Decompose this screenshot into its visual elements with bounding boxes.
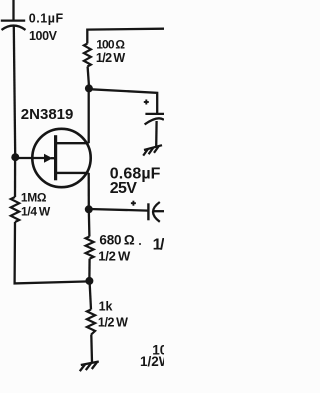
svg-text:1/2 W: 1/2 W xyxy=(98,249,131,264)
wire R4 to ground xyxy=(90,335,93,363)
wire R2 down and bottom rail xyxy=(15,222,90,283)
capacitor C2 plus sign xyxy=(144,100,149,105)
wire source node down to source lead xyxy=(88,173,90,209)
svg-text:0.1µF: 0.1µF xyxy=(29,12,64,26)
svg-text:1MΩ: 1MΩ xyxy=(21,191,47,205)
resistor R4 1k zigzag xyxy=(87,310,95,335)
svg-text:100V: 100V xyxy=(29,29,58,43)
capacitor C3 straight plate xyxy=(147,203,149,220)
wire bottom node to R4 xyxy=(90,282,91,310)
svg-text:1k: 1k xyxy=(99,300,113,314)
wire top rail xyxy=(87,29,164,44)
node gate junction dot xyxy=(11,153,19,161)
svg-text:680 Ω: 680 Ω xyxy=(99,233,134,248)
svg-text:1/2 W: 1/2 W xyxy=(96,51,125,65)
transistor Q1 arrow stub xyxy=(51,157,56,159)
transistor Q1 drain lead xyxy=(55,142,89,144)
transistor Q1 source lead xyxy=(55,172,89,174)
wire C1 to gate node xyxy=(14,27,15,156)
svg-text:1/2W: 1/2W xyxy=(140,354,164,369)
node source junction dot xyxy=(85,205,93,213)
capacitor C3 curved plate xyxy=(153,202,160,222)
wire output to C3 xyxy=(89,209,148,211)
transistor Q1 channel bar xyxy=(54,135,57,180)
transistor Q1 2N3819 gate arrow xyxy=(44,154,53,163)
resistor R3 680 ohm zigzag xyxy=(86,237,94,259)
capacitor C2 curved plate xyxy=(145,118,164,124)
svg-text:2N3819: 2N3819 xyxy=(21,106,74,123)
transistor Q1 envelope circle xyxy=(32,129,90,187)
ground right chassis symbol xyxy=(143,145,162,155)
wire gate lead xyxy=(15,157,45,159)
capacitor C2 straight plate xyxy=(145,113,164,115)
capacitor C1 0.1uF input (straight plate) xyxy=(1,19,25,21)
wire gate node to R2 xyxy=(14,159,16,197)
wire drain node to bypass cap xyxy=(89,89,157,113)
svg-text:1/2 W: 1/2 W xyxy=(98,315,128,329)
svg-text:25V: 25V xyxy=(110,180,137,197)
wire R1 bottom to drain node xyxy=(88,67,89,86)
svg-text:1/4 W: 1/4 W xyxy=(21,204,51,218)
wire source node to R3 xyxy=(88,209,91,236)
wire drain node down to drain lead xyxy=(88,88,90,143)
capacitor C3 plus sign xyxy=(131,201,136,206)
ground bottom chassis symbol xyxy=(80,362,99,372)
wire C3 output stub xyxy=(154,210,164,212)
capacitor C1 curved plate xyxy=(2,26,26,30)
svg-text:1/: 1/ xyxy=(153,237,164,254)
resistor R2 1M zigzag xyxy=(11,197,19,222)
node drain junction dot xyxy=(85,84,93,92)
wire C2 to ground xyxy=(155,121,158,147)
resistor R1 100 ohm zigzag xyxy=(84,44,91,67)
stray dash mark xyxy=(139,243,141,245)
svg-text:100 Ω: 100 Ω xyxy=(96,37,125,51)
wire R3 to bottom node xyxy=(88,259,90,278)
node bottom junction dot xyxy=(85,277,93,285)
wire input top lead xyxy=(12,0,14,20)
